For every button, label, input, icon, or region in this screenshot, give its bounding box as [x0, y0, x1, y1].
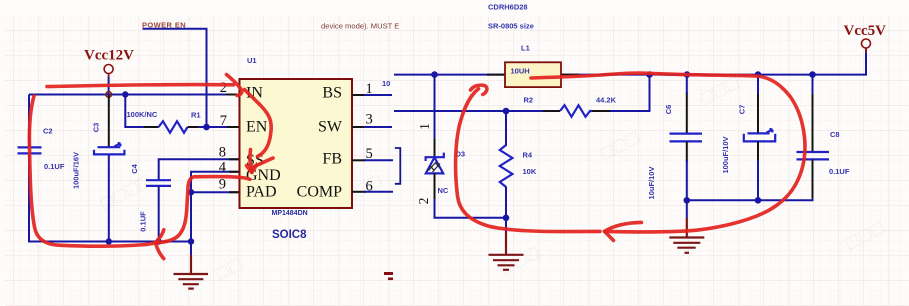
svg-text:10K: 10K — [523, 167, 537, 176]
pin 4 stub of U1 — [229, 171, 240, 173]
pin 1 (BS) stub wire — [352, 94, 392, 96]
svg-text:C6: C6 — [664, 105, 673, 115]
capacitor C8 0.1UF — [797, 75, 850, 200]
resistor R1 100K/NC with connecting wires — [125, 95, 239, 133]
wire Vcc12V horizontal rail to pin 2 (IN) — [29, 94, 240, 96]
wire right ground rail under C6/C7/C8 — [687, 198, 813, 200]
svg-text:100K/NC: 100K/NC — [127, 110, 158, 119]
annotation red marker: big loop around input section — [29, 96, 154, 246]
annotation red marker: stroke through IN curving to SS — [245, 90, 272, 157]
svg-text:R4: R4 — [523, 151, 533, 160]
junction R2/R4/FB-stub node — [503, 108, 510, 115]
inductor L1 10UH — [487, 62, 579, 87]
power port Vcc5V — [844, 23, 887, 53]
svg-text:C8: C8 — [830, 130, 840, 139]
junction C6 at right ground rail — [684, 197, 691, 204]
svg-text:10UH: 10UH — [511, 67, 530, 76]
capacitor C3 100uF/16V polarized — [72, 95, 125, 242]
capacitor C4 0.1UF — [130, 163, 171, 241]
pin 2 stub of U1 — [226, 94, 240, 96]
svg-text:C3: C3 — [92, 123, 101, 133]
svg-text:FB: FB — [322, 151, 342, 168]
svg-text:C4: C4 — [130, 163, 139, 173]
svg-text:BS: BS — [322, 85, 342, 102]
svg-text:POWER EN: POWER EN — [142, 21, 186, 30]
ground symbol (right, below C6) — [669, 200, 704, 253]
svg-text:device mode). MUST E: device mode). MUST E — [321, 22, 399, 31]
junction D3 top at Vout net — [431, 71, 438, 78]
resistor R2 44.2K — [524, 75, 650, 117]
svg-text:R1: R1 — [191, 111, 201, 120]
svg-text:NC: NC — [438, 186, 449, 195]
ground symbol (left) — [174, 242, 209, 289]
capacitor C2 0.1UF — [18, 127, 65, 172]
diode D3 zener (NC) — [426, 75, 506, 218]
partial ground mark (clipped symbol) — [384, 272, 393, 280]
annotation red marker: arrowhead hook at pin 2 — [227, 75, 242, 96]
svg-text:100uF/16V: 100uF/16V — [72, 152, 81, 189]
pin 9 stub of U1 — [229, 191, 240, 193]
svg-text:C2: C2 — [43, 127, 53, 136]
svg-text:2: 2 — [416, 198, 431, 205]
svg-text:U1: U1 — [247, 56, 257, 65]
junction D3/R4 ground node — [503, 215, 510, 222]
wire Vout top net from x394 to Vcc5V port — [394, 48, 866, 75]
svg-text:EN: EN — [246, 119, 268, 136]
svg-text:SW: SW — [318, 119, 343, 136]
svg-text:10uF/10V: 10uF/10V — [647, 167, 656, 200]
resistor R4 10K — [500, 111, 537, 218]
power port Vcc12V — [84, 48, 134, 98]
annotation red marker: tick across SS — [252, 158, 273, 168]
annotation red marker: big loop around output section — [531, 73, 805, 232]
junction C3 at ground rail — [106, 238, 112, 244]
svg-text:Vcc12V: Vcc12V — [84, 48, 134, 64]
wire net POWER_EN from label to pin 7 junction — [143, 29, 207, 127]
wire pin 9 (PAD) to ground branch — [191, 191, 240, 193]
svg-text:PAD: PAD — [246, 183, 277, 200]
wire pin 4 (GND) down to ground rail — [191, 172, 240, 242]
annotation red marker: small down arrow at SS — [250, 150, 252, 173]
capacitor C6 10uF/10V — [647, 75, 702, 201]
svg-text:2: 2 — [220, 80, 227, 96]
pin 6 (COMP) stub wire — [352, 191, 393, 193]
wire FB divider net — [394, 110, 560, 112]
svg-text:4: 4 — [219, 160, 227, 176]
junction C4 at ground rail — [156, 238, 162, 244]
pin 8 stub of U1 — [229, 158, 240, 160]
svg-text:MP1484DN: MP1484DN — [272, 210, 308, 217]
svg-text:R2: R2 — [524, 96, 534, 105]
junction C7 top at Vout net — [755, 71, 762, 78]
svg-text:0.1UF: 0.1UF — [829, 167, 850, 176]
svg-text:CDRH6D28: CDRH6D28 — [488, 3, 528, 12]
svg-text:0.1UF: 0.1UF — [139, 211, 148, 232]
junction pin 9 / ground branch — [188, 189, 194, 195]
wire left branch down to C2 and bottom ground rail — [28, 95, 30, 148]
svg-text:8: 8 — [219, 145, 226, 161]
pin 5 (FB) stub wire — [352, 159, 393, 161]
svg-text:0.1UF: 0.1UF — [44, 162, 65, 171]
pin 3 (SW) stub wire — [352, 126, 392, 128]
svg-text:9: 9 — [219, 177, 226, 193]
wire C2 bottom to ground rail and rail to ground stem — [29, 154, 191, 242]
junction at pin 7 (EN) / POWER_EN / R1 — [203, 124, 210, 131]
junction C7 at right ground rail — [755, 197, 762, 204]
capacitor C7 100uF/10V polarized — [721, 75, 775, 201]
svg-text:COMP: COMP — [297, 183, 342, 200]
svg-text:1: 1 — [417, 123, 432, 130]
annotation red marker: left arrowhead on bottom line — [605, 222, 642, 231]
IC U1 MP1484DN body — [240, 79, 353, 208]
annotation red marker: curved up arrow near D3 — [456, 89, 600, 232]
svg-text:3: 3 — [366, 112, 373, 128]
junction C6 top at Vout net — [684, 71, 691, 78]
junction ground branch at ground rail — [188, 238, 194, 244]
svg-text:SR-0805 size: SR-0805 size — [488, 22, 534, 31]
svg-text:SOIC8: SOIC8 — [272, 229, 307, 241]
svg-text:44.2K: 44.2K — [596, 96, 617, 105]
svg-text:C7: C7 — [738, 105, 747, 115]
annotation red marker: arrow into pin 2 — [47, 85, 234, 87]
junction C8 top at Vout net — [809, 71, 816, 78]
svg-text:100uF/10V: 100uF/10V — [721, 136, 730, 173]
bracket outline near FB pins — [395, 148, 401, 184]
junction R2 right at Vout net — [646, 71, 653, 78]
annotation red marker: stroke from GND pin down to rail with arrow — [156, 177, 250, 243]
junction at R1 top tap on Vcc rail — [122, 91, 128, 97]
svg-text:7: 7 — [220, 113, 227, 129]
wire pin 8 (SS) to C4 — [159, 159, 240, 180]
svg-text:10: 10 — [382, 79, 390, 88]
svg-text:L1: L1 — [521, 44, 530, 53]
ground symbol (mid, below R4) — [489, 218, 524, 270]
svg-text:Vcc5V: Vcc5V — [844, 23, 887, 39]
